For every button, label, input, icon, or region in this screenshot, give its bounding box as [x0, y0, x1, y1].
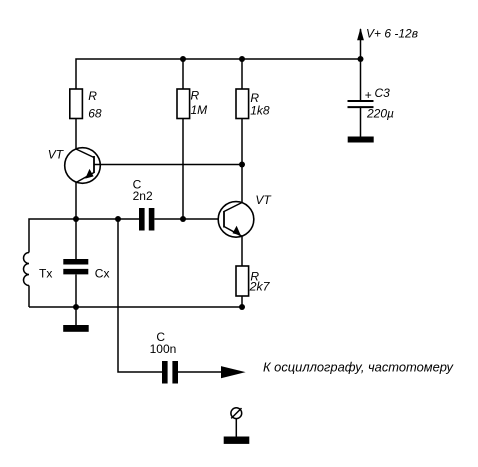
svg-text:1k8: 1k8 — [250, 103, 270, 117]
resistor R 2k7 — [236, 266, 249, 296]
resistor R 1k8 — [236, 89, 249, 119]
wire VT1 base to node B1 — [94, 164, 242, 166]
svg-text:68: 68 — [88, 107, 102, 121]
node R2k7 bottom — [239, 304, 245, 310]
node V+ / C3 — [358, 56, 364, 62]
capacitor C 100n plates — [165, 361, 175, 384]
resistor R 1M — [177, 89, 190, 119]
svg-text:Tx: Tx — [39, 266, 52, 280]
ground probe bar — [224, 437, 250, 444]
node B1 (VT1 base / R1k8 / VT2 collector) — [239, 162, 245, 168]
capacitor C3 plates (electrolytic) — [348, 101, 374, 107]
wire bottom tank rail — [29, 306, 242, 308]
wire R1k8 bottom lead to node B1 and VT2 collector — [241, 119, 243, 203]
wire R2k7 bottom lead — [241, 296, 243, 307]
wire C3 bottom lead — [360, 107, 362, 136]
node R1M bottom / VT2 base — [180, 216, 186, 222]
svg-text:C3: C3 — [375, 86, 391, 100]
wire mid rail left part (tank top to C 2n2) — [29, 219, 139, 253]
ground under tank — [63, 325, 88, 332]
wire tank left bottom lead — [28, 286, 30, 308]
probe terminal circle with slash — [231, 408, 242, 419]
wire VT1 emitter lead down to node E1 — [75, 183, 77, 220]
svg-text:V+ 6 -12в: V+ 6 -12в — [366, 26, 418, 40]
svg-text:R: R — [191, 89, 200, 103]
transistor VT1 (mirrored NPN) — [65, 148, 101, 184]
transistor VT2 (NPN) — [218, 202, 254, 238]
wire R68 bottom lead to VT1 collector — [75, 119, 77, 150]
node tank bottom / ground — [73, 304, 79, 310]
svg-text:VT: VT — [48, 148, 65, 162]
capacitor C 2n2 plates — [142, 208, 152, 231]
svg-text:2k7: 2k7 — [249, 279, 271, 293]
svg-text:VT: VT — [255, 193, 272, 207]
wire mid rail right part (C 2n2 to VT2 base) — [155, 218, 225, 220]
svg-text:1M: 1M — [191, 103, 208, 117]
svg-text:К осциллографу, частотомеру: К осциллографу, частотомеру — [263, 359, 454, 374]
svg-text:100n: 100n — [150, 342, 177, 356]
power V+ line — [360, 29, 362, 100]
wire output tap from mid rail down and right to C 100n — [118, 219, 162, 372]
capacitor Cx plates — [63, 262, 88, 272]
inductor Tx coil — [24, 253, 29, 286]
wire R1k8 top lead — [241, 59, 243, 89]
wire R1M bottom lead down to mid wire — [182, 119, 184, 220]
output arrow — [221, 366, 246, 378]
node R1M top — [180, 56, 186, 62]
wire Cx top lead — [75, 219, 77, 259]
svg-text:220µ: 220µ — [366, 106, 394, 120]
svg-text:Cx: Cx — [95, 266, 110, 280]
node output tap — [115, 216, 121, 222]
wire ground lead under Cx — [75, 307, 77, 325]
wire R1M top lead — [182, 59, 184, 89]
svg-text:+: + — [365, 88, 372, 102]
power V+ arrow — [357, 28, 364, 40]
wire top supply rail with R68 top lead — [76, 59, 361, 89]
node R1k8 top — [239, 56, 245, 62]
wire VT2 emitter lead — [241, 236, 243, 266]
node E1 (VT1 emitter / tank top) — [73, 216, 79, 222]
wire Cx bottom lead — [75, 275, 77, 308]
wire C 100n to output arrow — [178, 371, 221, 373]
ground under C3 — [348, 137, 374, 143]
svg-text:R: R — [88, 89, 97, 103]
svg-text:2n2: 2n2 — [133, 189, 153, 203]
wire probe lead — [235, 419, 237, 437]
resistor R 68 — [70, 89, 83, 119]
